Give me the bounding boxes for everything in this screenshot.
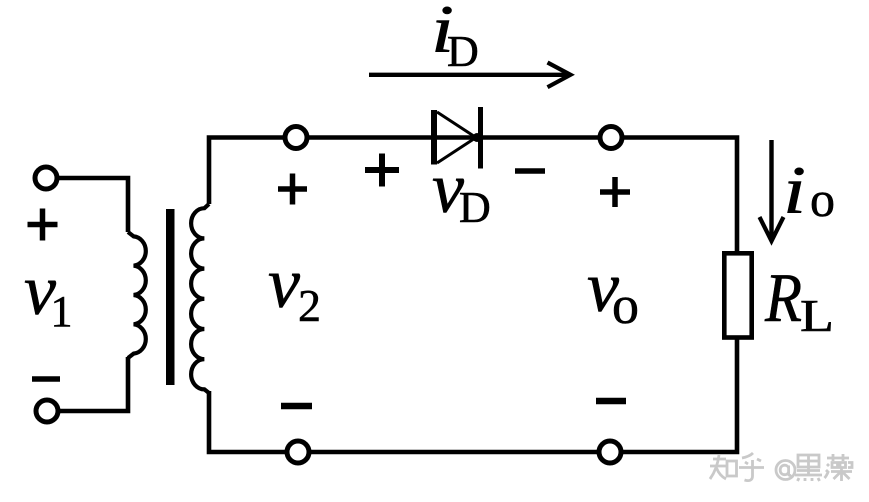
svg-text:D: D	[459, 183, 491, 232]
wire from left-top terminal to primary	[58, 178, 129, 232]
polarity - of v1	[32, 376, 60, 382]
wire bottom rail to secondary bottom	[209, 391, 287, 452]
polarity - of v2	[281, 403, 312, 410]
label v2	[268, 243, 321, 331]
label io	[783, 152, 835, 228]
svg-text:R: R	[764, 260, 802, 337]
wire through diode to right-top terminal	[434, 135, 600, 140]
svg-text:o: o	[810, 171, 835, 227]
diode D triangle outline	[437, 112, 476, 163]
polarity + of v1	[28, 209, 58, 241]
polarity + of v2	[278, 174, 307, 205]
current arrow io shaft	[769, 140, 773, 237]
wire from primary to left-bottom terminal	[59, 357, 129, 411]
terminal secondary-bottom	[287, 441, 309, 463]
wire secondary top to top rail	[209, 138, 285, 205]
svg-text:1: 1	[51, 287, 73, 336]
polarity + of vD	[365, 154, 399, 187]
polarity - of vD	[515, 168, 545, 174]
wire bottom rail between terminals	[309, 450, 599, 455]
transformer primary winding	[128, 232, 146, 358]
label v1	[24, 250, 73, 336]
wire resistor to bottom rail	[621, 338, 737, 452]
transformer secondary winding	[191, 204, 209, 393]
current arrow iD head	[548, 63, 571, 88]
svg-text:i: i	[783, 152, 806, 228]
watermark 知乎 @黑藻	[710, 453, 852, 481]
terminal secondary-top	[285, 127, 307, 149]
terminal left-top	[35, 167, 57, 189]
current arrow io head	[760, 217, 784, 241]
label iD	[431, 0, 479, 76]
label vo	[587, 247, 639, 335]
polarity - of vo	[596, 398, 626, 405]
svg-text:D: D	[447, 27, 479, 76]
terminal left-bottom	[36, 400, 58, 422]
polarity + of vo	[600, 177, 630, 207]
wire right-top terminal to resistor	[622, 138, 737, 254]
diode D anode bar	[431, 110, 437, 165]
label RL	[764, 260, 834, 341]
terminal right-top	[600, 127, 622, 149]
svg-text:2: 2	[298, 280, 321, 331]
svg-text:L: L	[800, 290, 834, 341]
svg-text:o: o	[612, 275, 639, 335]
transformer core	[166, 209, 175, 385]
diode D junction dot	[473, 133, 482, 142]
label vD	[432, 148, 491, 232]
current arrow iD shaft	[369, 73, 566, 77]
terminal right-bottom	[599, 441, 621, 463]
svg-text:v: v	[268, 243, 300, 323]
wire top rail terminal to diode	[307, 135, 434, 140]
diode D cathode bar	[478, 107, 483, 169]
resistor RL body	[724, 253, 751, 337]
